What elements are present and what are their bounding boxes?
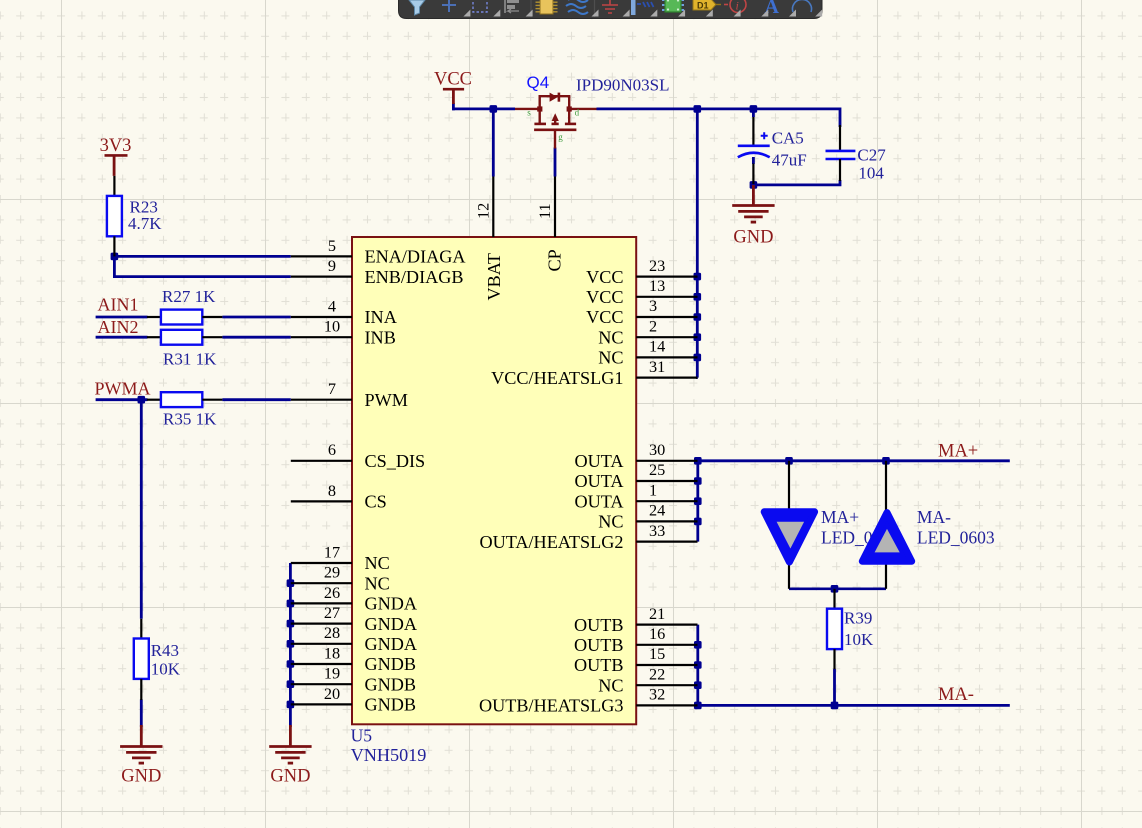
svg-text:CS_DIS: CS_DIS bbox=[365, 451, 426, 471]
svg-text:NC: NC bbox=[598, 675, 623, 695]
pin 30 (OUTA) right bbox=[574, 440, 697, 471]
svg-text:VNH5019: VNH5019 bbox=[351, 745, 427, 765]
svg-text:R39: R39 bbox=[844, 609, 872, 628]
resistor R23 4.7K bbox=[107, 176, 162, 257]
node: junction GND chain bbox=[287, 620, 295, 628]
svg-text:GND: GND bbox=[121, 767, 161, 787]
svg-text:7: 7 bbox=[328, 379, 336, 398]
wire: OUTB bus vertical bbox=[696, 625, 699, 706]
node: junction OUTA bus bbox=[694, 518, 702, 526]
svg-text:OUTA: OUTA bbox=[574, 471, 623, 491]
node: junction VCC bus bbox=[694, 354, 702, 362]
power port 3V3 bbox=[100, 136, 132, 176]
svg-text:MA+: MA+ bbox=[938, 441, 978, 461]
svg-text:2: 2 bbox=[649, 316, 657, 335]
svg-text:GNDB: GNDB bbox=[365, 674, 417, 694]
node: junction R39 / MA- bbox=[831, 702, 839, 710]
svg-text:INB: INB bbox=[365, 327, 396, 347]
svg-text:23: 23 bbox=[649, 256, 665, 275]
svg-text:MA-: MA- bbox=[917, 507, 951, 527]
wire: gate of Q4 to pin 11 bbox=[554, 148, 557, 177]
pin 23 (VCC) right bbox=[586, 256, 697, 287]
icon: no-ERC marker bbox=[730, 0, 746, 13]
wire: LED bottoms connecting row y=588.8 bbox=[789, 587, 886, 590]
pin 15 (OUTB) right bbox=[574, 644, 698, 675]
wire: top rail right of Q4 to C27 corner bbox=[597, 109, 841, 127]
svg-text:1: 1 bbox=[649, 480, 657, 499]
resistor R43 10K bbox=[134, 619, 181, 700]
node: junction GND chain bbox=[287, 600, 295, 608]
svg-text:17: 17 bbox=[324, 542, 340, 561]
svg-text:6: 6 bbox=[328, 440, 336, 459]
pin 31 (VCC/HEATSLG1) right bbox=[491, 357, 697, 388]
pin 29 (NC) left bbox=[291, 563, 390, 594]
node: junction OUTB bus bbox=[694, 641, 702, 649]
pin 13 (VCC) right bbox=[586, 276, 697, 307]
svg-text:CP: CP bbox=[545, 249, 565, 271]
node: junction OUTB bus bbox=[694, 681, 702, 689]
svg-text:GND: GND bbox=[733, 227, 773, 247]
transistor Q4 IPD90N03SL (N-MOSFET with body diode) bbox=[515, 93, 597, 149]
icon: align bbox=[504, 0, 506, 13]
icon: probe bbox=[631, 0, 636, 15]
svg-text:4: 4 bbox=[328, 296, 336, 315]
pin 25 (OUTA) right bbox=[574, 460, 697, 491]
svg-text:i: i bbox=[736, 0, 739, 13]
node: junction VCC bus bbox=[694, 273, 702, 281]
pin 33 (OUTA/HEATSLG2) right bbox=[479, 521, 697, 552]
svg-text:10K: 10K bbox=[151, 660, 181, 679]
wire: R31 to pin 10 bbox=[222, 336, 290, 339]
pin 32 (OUTB/HEATSLG3) right bbox=[479, 685, 698, 716]
svg-text:28: 28 bbox=[324, 623, 340, 642]
pin 2 (NC) right bbox=[598, 316, 697, 347]
node: junction MA+ / LED2 bbox=[882, 457, 890, 465]
toolbar (dark, top center) bbox=[399, 0, 823, 19]
svg-text:13: 13 bbox=[649, 276, 665, 295]
wire: top VCC rail y=108.9 left of Q4 bbox=[452, 108, 515, 111]
svg-text:16: 16 bbox=[649, 624, 665, 643]
svg-text:NC: NC bbox=[598, 327, 623, 347]
pin 6 (CS_DIS) left bbox=[291, 440, 425, 471]
svg-text:LED_0603: LED_0603 bbox=[917, 527, 995, 547]
pin 4 (INA) left bbox=[291, 296, 397, 327]
svg-text:31: 31 bbox=[649, 357, 665, 376]
wire: VCC stub vertical bbox=[452, 103, 455, 110]
svg-text:d: d bbox=[575, 107, 580, 117]
wire: down to pin9 row bbox=[113, 256, 116, 276]
LED MA- LED_0603 (right, cathode up) bbox=[862, 461, 995, 589]
node: junction GND chain bbox=[287, 660, 295, 668]
svg-text:24: 24 bbox=[649, 501, 665, 520]
svg-text:12: 12 bbox=[473, 203, 492, 219]
node: junction OUTA bus bbox=[694, 497, 702, 505]
node: junction GND chain bbox=[287, 701, 295, 709]
svg-text:9: 9 bbox=[328, 256, 336, 275]
svg-text:ENB/DIAGB: ENB/DIAGB bbox=[365, 267, 464, 287]
ground symbol below R43 bbox=[140, 725, 143, 747]
svg-text:5: 5 bbox=[328, 236, 336, 255]
svg-text:3: 3 bbox=[649, 296, 657, 315]
node: junction OUTB bus / MA- bbox=[694, 702, 702, 710]
svg-text:GNDB: GNDB bbox=[365, 695, 417, 715]
node: junction LED row / R39 bbox=[831, 585, 839, 593]
svg-text:PWM: PWM bbox=[365, 390, 408, 410]
svg-text:VCC: VCC bbox=[586, 287, 623, 307]
wire: PWMA junction down to R43 bbox=[140, 400, 143, 619]
wire: MA- rail bbox=[698, 704, 1010, 707]
svg-text:18: 18 bbox=[324, 643, 340, 662]
svg-text:47uF: 47uF bbox=[772, 151, 807, 170]
node: junction VCC bus bbox=[694, 293, 702, 301]
wire: CA5 bottom to GND row bbox=[752, 157, 755, 164]
svg-text:32: 32 bbox=[649, 685, 665, 704]
svg-text:19: 19 bbox=[324, 664, 340, 683]
node: junction MA+ / LED1 bbox=[785, 457, 793, 465]
capacitor CA5 47uF (polarized) bbox=[738, 117, 807, 184]
icon: selection box bbox=[473, 0, 487, 12]
pin 1 (OUTA) right bbox=[574, 480, 697, 511]
wire: OUTA bus vertical x=697.8 bbox=[696, 461, 699, 542]
svg-text:VCC: VCC bbox=[586, 267, 623, 287]
svg-text:GNDB: GNDB bbox=[365, 654, 417, 674]
svg-text:14: 14 bbox=[649, 337, 665, 356]
wire: R35 to pin 7 bbox=[222, 398, 290, 401]
node: junction OUTA bus bbox=[694, 477, 702, 485]
svg-text:NC: NC bbox=[365, 573, 390, 593]
svg-text:AIN1: AIN1 bbox=[98, 295, 139, 315]
pin 7 (PWM) left bbox=[291, 379, 408, 410]
svg-text:MA+: MA+ bbox=[821, 507, 859, 527]
svg-text:104: 104 bbox=[858, 164, 884, 183]
wire: R27 to pin 4 bbox=[222, 316, 290, 319]
pin 17 (NC) left bbox=[291, 542, 390, 573]
svg-text:33: 33 bbox=[649, 521, 665, 540]
pin 3 (VCC) right bbox=[586, 296, 697, 327]
svg-text:VCC: VCC bbox=[434, 70, 472, 90]
svg-text:OUTB: OUTB bbox=[574, 635, 624, 655]
pin 27 (GNDA) left bbox=[291, 603, 417, 634]
svg-text:D1: D1 bbox=[697, 1, 709, 11]
svg-text:3V3: 3V3 bbox=[100, 136, 132, 156]
pin 21 (OUTB) right bbox=[574, 604, 698, 635]
icon: filter funnel bbox=[409, 0, 425, 15]
svg-text:R43: R43 bbox=[151, 641, 179, 660]
svg-text:VCC: VCC bbox=[586, 307, 623, 327]
pin 24 (NC) right bbox=[598, 501, 697, 532]
icon: part (yellow chip) bbox=[536, 0, 558, 14]
wire: MA+ rail bbox=[698, 459, 1010, 462]
node: junction R23 / pin5 wire bbox=[111, 253, 119, 261]
pin 20 (GNDB) left bbox=[291, 684, 416, 715]
node: junction GND chain bbox=[287, 579, 295, 587]
wire: CA5 top stub bbox=[752, 109, 755, 117]
svg-text:Q4: Q4 bbox=[527, 73, 550, 92]
svg-text:NC: NC bbox=[598, 348, 623, 368]
ground symbol below GNDB chain bbox=[289, 725, 292, 747]
svg-text:GNDA: GNDA bbox=[365, 614, 418, 634]
svg-text:CS: CS bbox=[365, 492, 387, 512]
svg-text:ENA/DIAGA: ENA/DIAGA bbox=[365, 247, 466, 267]
node: junction VCC bus bbox=[694, 313, 702, 321]
svg-text:27: 27 bbox=[324, 603, 340, 622]
IC U5 VNH5019 body bbox=[352, 237, 636, 724]
wire: R39 bottom to MA- rail bbox=[833, 669, 836, 706]
node: junction PWMA / R43 bbox=[138, 396, 146, 404]
svg-text:OUTA: OUTA bbox=[574, 451, 623, 471]
wire: R43 bottom to GND bbox=[140, 699, 143, 727]
pin 19 (GNDB) left bbox=[291, 664, 416, 695]
svg-text:OUTB/HEATSLG3: OUTB/HEATSLG3 bbox=[479, 696, 624, 716]
resistor R31 1K bbox=[147, 330, 223, 369]
svg-text:s: s bbox=[527, 107, 531, 117]
svg-text:MA-: MA- bbox=[938, 685, 974, 705]
svg-text:R35 1K: R35 1K bbox=[163, 410, 217, 429]
svg-text:20: 20 bbox=[324, 684, 340, 703]
svg-text:22: 22 bbox=[649, 664, 665, 683]
node: junction CA5 bottom / GND bbox=[750, 181, 758, 189]
power port VCC bbox=[434, 70, 472, 105]
node: junction GND chain bbox=[287, 680, 295, 688]
svg-text:21: 21 bbox=[649, 604, 665, 623]
node: junction VCC rail / VCC bus bbox=[694, 105, 702, 113]
svg-text:GNDA: GNDA bbox=[365, 634, 418, 654]
wire: AIN2 to R31 bbox=[96, 336, 148, 339]
svg-text:30: 30 bbox=[649, 440, 665, 459]
svg-text:NC: NC bbox=[365, 553, 390, 573]
wire: PWMA to R35 bbox=[96, 398, 148, 401]
wire: R23 junction to pin5 bbox=[113, 255, 291, 258]
svg-text:10K: 10K bbox=[844, 630, 874, 649]
pin 14 (NC) right bbox=[598, 337, 697, 368]
svg-text:4.7K: 4.7K bbox=[128, 214, 162, 233]
icon: green part bbox=[662, 0, 684, 12]
wire: AIN1 to R27 bbox=[96, 316, 148, 319]
svg-text:OUTA/HEATSLG2: OUTA/HEATSLG2 bbox=[479, 532, 623, 552]
svg-text:IPD90N03SL: IPD90N03SL bbox=[576, 76, 670, 95]
svg-text:AIN2: AIN2 bbox=[98, 317, 139, 337]
icon: crosshair bbox=[442, 0, 456, 12]
node: junction MA+ / OUTA bus bbox=[694, 457, 702, 465]
svg-text:OUTA: OUTA bbox=[574, 491, 623, 511]
toolbar dropdown markers bbox=[463, 10, 822, 17]
svg-text:25: 25 bbox=[649, 460, 665, 479]
svg-text:CA5: CA5 bbox=[772, 129, 804, 148]
node: junction VCC bus bbox=[694, 333, 702, 341]
svg-text:R27 1K: R27 1K bbox=[162, 287, 216, 306]
pin 26 (GNDA) left bbox=[291, 583, 417, 614]
svg-text:GNDA: GNDA bbox=[365, 594, 418, 614]
pin 9 (ENB/DIAGB) left bbox=[291, 256, 464, 287]
svg-text:R31 1K: R31 1K bbox=[163, 350, 217, 369]
icon: wires bbox=[566, 0, 588, 14]
pin 10 (INB) left bbox=[291, 317, 396, 348]
svg-text:OUTB: OUTB bbox=[574, 655, 624, 675]
ground symbol at CA5 bbox=[752, 185, 755, 205]
svg-text:PWMA: PWMA bbox=[95, 378, 151, 398]
svg-text:NC: NC bbox=[598, 512, 623, 532]
node: junction VCC rail / pin12 bbox=[490, 105, 498, 113]
LED MA+ LED_0603 (left, cathode down) bbox=[764, 461, 899, 589]
wire: bottom of CA5/C27 connecting row y=184.9 bbox=[753, 180, 840, 185]
svg-text:g: g bbox=[558, 132, 563, 142]
wire: to pin 9 bbox=[113, 275, 291, 278]
wire: GNDA/GNDB chain vertical x=290.4 bbox=[289, 563, 292, 727]
svg-text:GND: GND bbox=[270, 767, 310, 787]
svg-text:OUTB: OUTB bbox=[574, 615, 624, 635]
svg-text:26: 26 bbox=[324, 583, 340, 602]
pin 18 (GNDB) left bbox=[291, 643, 416, 674]
svg-text:U5: U5 bbox=[351, 726, 373, 746]
pin 12 (VBAT) top bbox=[473, 177, 504, 301]
svg-text:VCC/HEATSLG1: VCC/HEATSLG1 bbox=[491, 368, 623, 388]
node: junction VCC rail / CA5 bbox=[750, 105, 758, 113]
node: junction OUTB bus bbox=[694, 661, 702, 669]
capacitor C27 104 bbox=[826, 125, 887, 183]
wire: vertical VCC bus x=697.3 feeding pins 23/13/3/2/14/31 bbox=[696, 108, 699, 378]
icon: arc bbox=[793, 0, 812, 12]
icon: ground (red) bbox=[602, 0, 618, 13]
pin 11 (CP) top bbox=[535, 177, 565, 272]
icon: D1 annotate tag bbox=[693, 0, 716, 10]
resistor R27 1K bbox=[147, 287, 223, 325]
pin 22 (NC) right bbox=[598, 664, 697, 695]
resistor R35 1K bbox=[147, 392, 223, 428]
svg-text:8: 8 bbox=[328, 481, 336, 500]
svg-text:INA: INA bbox=[365, 307, 397, 327]
svg-text:10: 10 bbox=[324, 317, 340, 336]
svg-text:15: 15 bbox=[649, 644, 665, 663]
pin 8 (CS) left bbox=[291, 481, 387, 512]
svg-text:29: 29 bbox=[324, 563, 340, 582]
pin 5 (ENA/DIAGA) left bbox=[291, 236, 466, 267]
pin 16 (OUTB) right bbox=[574, 624, 698, 655]
node: junction GND chain bbox=[287, 640, 295, 648]
pin 28 (GNDA) left bbox=[291, 623, 417, 654]
svg-text:11: 11 bbox=[535, 203, 554, 219]
svg-text:VBAT: VBAT bbox=[484, 253, 504, 301]
wire: VBAT drop from rail to pin 12 bbox=[492, 109, 495, 177]
svg-text:C27: C27 bbox=[857, 146, 886, 165]
resistor R39 10K bbox=[827, 589, 874, 669]
